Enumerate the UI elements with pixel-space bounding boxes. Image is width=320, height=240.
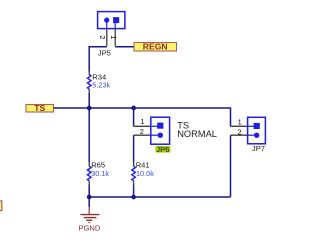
wire JP5 pin1 to REGN (115, 46, 134, 48)
wire R41 to bottom rail (133, 185, 135, 197)
wire JP5 pin2 to R34 (89, 47, 107, 72)
svg-text:JP5: JP5 (98, 48, 111, 57)
pin 1 stub (JP6) (134, 125, 152, 127)
wire R65 to bottom rail (88, 185, 90, 197)
svg-text:2: 2 (140, 129, 144, 136)
node junction TS/JP6 (131, 106, 136, 111)
net label TS (26, 103, 54, 113)
svg-text:JP7: JP7 (252, 144, 265, 153)
wire R34 to TS node (88, 93, 90, 108)
pin 1 stub (JP7) (231, 125, 249, 127)
connector JP6 (151, 117, 170, 144)
wire TS node down to JP6 pin1 (133, 108, 135, 126)
svg-text:2: 2 (98, 35, 105, 39)
pin 2 stub (JP6) (134, 134, 152, 136)
reference JP6 (highlighted) (156, 145, 171, 154)
annotation TS NORMAL (177, 120, 217, 139)
pin 2 stub (JP7) (231, 134, 249, 136)
svg-text:R41: R41 (136, 160, 150, 169)
svg-text:NORMAL: NORMAL (177, 129, 217, 139)
svg-text:1: 1 (238, 119, 242, 126)
connector JP5 (98, 12, 125, 29)
wire bottom rail (89, 196, 230, 198)
svg-text:30.1k: 30.1k (91, 169, 109, 178)
pin 2 stub (JP5) (106, 29, 108, 46)
wire TS node down to R65 (88, 108, 90, 163)
wire JP7 pin2 down to bottom rail (230, 135, 232, 197)
pin 1 stub (JP5) (114, 29, 116, 46)
node junction R65/ground (87, 195, 92, 200)
svg-text:PGND: PGND (78, 224, 100, 233)
node junction R41/bottom rail (131, 195, 136, 200)
svg-text:10.0k: 10.0k (136, 169, 154, 178)
resistor R34 (87, 71, 91, 94)
node junction TS/R34/R65 (87, 106, 92, 111)
svg-text:1: 1 (109, 35, 116, 39)
wire down to ground (88, 197, 90, 207)
svg-text:TS: TS (34, 103, 45, 113)
wire TS to JP7 pin1 (vertical drop) (230, 107, 232, 126)
svg-text:5.23k: 5.23k (92, 80, 110, 89)
svg-text:R65: R65 (91, 160, 105, 169)
connector JP7 (248, 117, 266, 144)
clipped label at left edge (0, 201, 2, 211)
svg-text:REGN: REGN (143, 42, 168, 52)
wire JP6 pin2 down to R41 (133, 135, 135, 162)
svg-text:JP6: JP6 (156, 145, 169, 154)
svg-text:2: 2 (238, 129, 242, 136)
resistor R65 (87, 162, 91, 185)
wire TS horizontal (54, 107, 231, 109)
svg-text:1: 1 (141, 119, 145, 126)
resistor R41 (132, 162, 136, 185)
ground PGND (80, 207, 99, 223)
power label REGN (134, 42, 177, 52)
